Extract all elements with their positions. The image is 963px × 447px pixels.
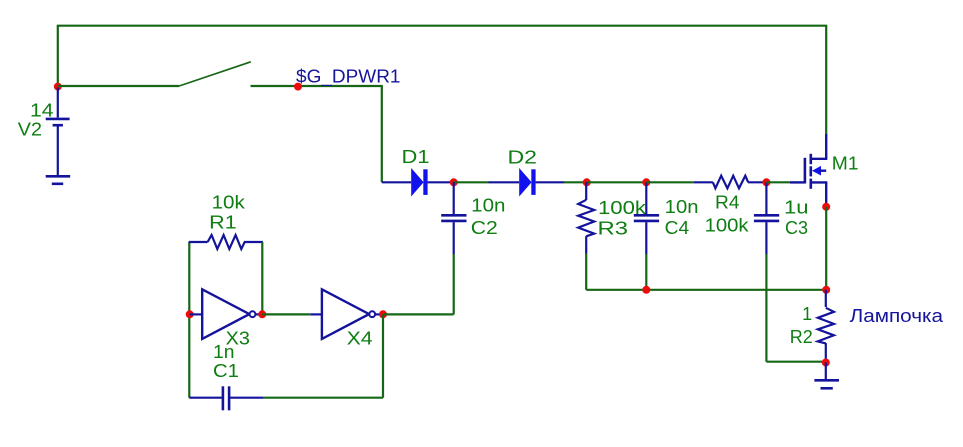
svg-text:C3: C3 (785, 218, 808, 238)
node battery plus (junction dot) (54, 83, 62, 91)
svg-text:10n: 10n (665, 197, 699, 217)
node rail right end (junction dot) (822, 286, 830, 294)
svg-text:D1: D1 (402, 147, 430, 167)
ground (below R2) (814, 363, 839, 389)
wire C4 node to R4 (646, 181, 694, 183)
wire X3 output to X4 input (262, 313, 310, 315)
resistor R3 (578, 182, 594, 253)
wire battery to switch (58, 85, 179, 87)
battery V2 (46, 88, 70, 175)
svg-text:10k: 10k (212, 193, 246, 213)
node R3 top (junction dot) (583, 178, 591, 186)
svg-text:1u: 1u (784, 198, 809, 218)
svg-text:1: 1 (802, 304, 812, 324)
diode D1 (382, 168, 454, 197)
diode D2 (489, 168, 565, 197)
node R4 right / C3 top (junction dot) (762, 178, 770, 186)
capacitor C3 (754, 182, 779, 254)
wire bottom rail (586, 289, 826, 291)
wire C1 bottom right segment (263, 397, 383, 399)
svg-text:R3: R3 (598, 218, 629, 238)
wire X4 output down to C1 level (382, 314, 384, 397)
svg-text:M1: M1 (832, 154, 859, 174)
capacitor C2 (441, 182, 466, 254)
svg-text:100k: 100k (705, 216, 750, 236)
wire R3 node to C4 node (587, 181, 647, 183)
wire C3 leg to R2 bottom (766, 361, 825, 363)
node C4 top (junction dot) (642, 178, 650, 186)
svg-text:X4: X4 (347, 329, 373, 349)
wire D2 to R3 node (564, 181, 587, 183)
svg-text:V2: V2 (18, 120, 42, 140)
wire C2 bottom down to X4 output level (453, 254, 455, 314)
wire gate net from R4 node to M1 (766, 181, 790, 183)
svg-text:1n: 1n (213, 342, 235, 362)
svg-text:C2: C2 (471, 218, 498, 238)
wire C4 bottom to bottom rail (645, 254, 647, 290)
wire left vertical from top rail to battery (57, 26, 59, 87)
node R2 bottom (junction dot) (822, 359, 830, 367)
node C4 bottom on rail (junction dot) (642, 286, 650, 294)
svg-text:C4: C4 (665, 218, 690, 238)
wire oscillator left rail (X3 input / C1 / R1 left) (188, 242, 190, 398)
mosfet M1 (790, 134, 827, 203)
wire C3 bottom down (crosses rail, no junction) (765, 254, 767, 362)
svg-text:D2: D2 (508, 148, 538, 168)
ground (below V2) (46, 176, 70, 184)
svg-text:Лампочка: Лампочка (850, 306, 945, 326)
svg-text:R4: R4 (715, 193, 740, 213)
svg-text:10n: 10n (471, 196, 505, 216)
node D1 cathode (junction dot) (450, 178, 458, 186)
resistor R2 (818, 290, 834, 363)
svg-text:C1: C1 (213, 361, 239, 381)
inverter X4 (310, 289, 383, 339)
resistor R4 (694, 176, 767, 189)
capacitor C1 (189, 386, 263, 410)
capacitor C4 (634, 182, 659, 254)
node X3 input (junction dot) (186, 310, 194, 318)
svg-text:14: 14 (30, 101, 54, 121)
node X3 output (junction dot) (258, 310, 266, 318)
wire X4 output to C2 branch (383, 313, 454, 315)
wire M1 drain from top rail (825, 26, 827, 134)
wire M1 source to bottom rail (825, 207, 827, 290)
wire R3 bottom to bottom rail corner (585, 254, 587, 290)
svg-text:R2: R2 (790, 327, 813, 347)
node M1 source (junction dot) (822, 203, 830, 211)
resistor R1 (189, 235, 263, 249)
switch blade (open) (179, 62, 251, 86)
wire D1 node to D2 (454, 181, 489, 183)
wire R1 right down to X3 output (261, 242, 263, 314)
wire vertical down to D1 level (381, 86, 383, 182)
wire top rail (57, 25, 827, 27)
svg-text:R1: R1 (209, 213, 237, 233)
inverter X3 (190, 289, 263, 339)
wire switch right contact to corner (251, 85, 383, 87)
svg-text:$G_DPWR1: $G_DPWR1 (296, 67, 401, 88)
node X4 output (junction dot) (379, 310, 387, 318)
node $G_DPWR1 (junction dot) (294, 83, 302, 91)
